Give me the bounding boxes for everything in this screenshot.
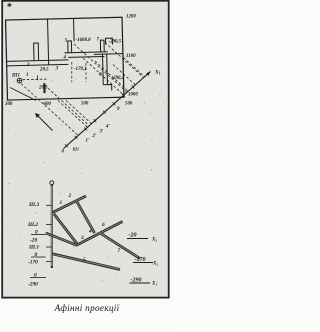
svg-text:2': 2' — [92, 134, 97, 139]
svg-text:-170,1: -170,1 — [74, 67, 87, 72]
svg-text:7: 7 — [118, 248, 121, 254]
svg-text:X2: X2 — [152, 262, 158, 267]
svg-text:3': 3' — [99, 130, 104, 135]
svg-text:3: 3 — [80, 235, 84, 241]
svg-text:-170: -170 — [28, 260, 38, 266]
svg-text:300: 300 — [4, 102, 13, 107]
svg-text:5: 5 — [83, 257, 86, 263]
svg-text:3: 3 — [55, 67, 59, 72]
svg-text:-290: -290 — [131, 278, 142, 284]
svg-text:-1688.8: -1688.8 — [76, 38, 92, 43]
svg-text:-290,4: -290,4 — [112, 76, 125, 81]
svg-text:2: 2 — [68, 193, 72, 199]
svg-text:1000: 1000 — [128, 93, 138, 98]
svg-text:-20: -20 — [30, 238, 37, 244]
svg-text:1200: 1200 — [126, 15, 136, 20]
svg-text:600: 600 — [44, 102, 52, 107]
svg-text:1': 1' — [86, 139, 90, 144]
svg-text:Ш.1: Ш.1 — [28, 245, 39, 251]
svg-text:X3: X3 — [151, 238, 157, 243]
svg-text:20,5: 20,5 — [38, 86, 48, 91]
svg-text:1100: 1100 — [126, 54, 136, 59]
svg-text:1: 1 — [26, 73, 28, 78]
svg-text:20,5: 20,5 — [39, 68, 49, 73]
svg-text:Ш.3: Ш.3 — [28, 202, 39, 208]
svg-text:Ш1: Ш1 — [11, 74, 20, 79]
svg-text:4: 4 — [63, 56, 67, 61]
svg-text:Ш.2: Ш.2 — [27, 222, 38, 228]
svg-text:X1: X1 — [151, 282, 157, 287]
svg-text:-290: -290 — [28, 282, 38, 288]
svg-text:500: 500 — [81, 102, 89, 107]
svg-text:4: 4 — [88, 229, 92, 235]
svg-text:Афінні проекції: Афінні проекції — [54, 303, 120, 313]
svg-text:0: 0 — [34, 273, 37, 279]
svg-text:2: 2 — [26, 63, 30, 68]
svg-text:1: 1 — [60, 200, 63, 206]
svg-text:-290,5: -290,5 — [109, 40, 122, 45]
svg-text:500: 500 — [125, 102, 133, 107]
svg-text:-20: -20 — [129, 233, 137, 239]
svg-text:0: 0 — [35, 252, 38, 258]
svg-text:6: 6 — [102, 222, 105, 228]
svg-text:Ш1: Ш1 — [72, 147, 80, 152]
svg-text:4': 4' — [105, 125, 110, 130]
svg-text:-170: -170 — [135, 257, 146, 263]
svg-text:0: 0 — [35, 230, 38, 236]
